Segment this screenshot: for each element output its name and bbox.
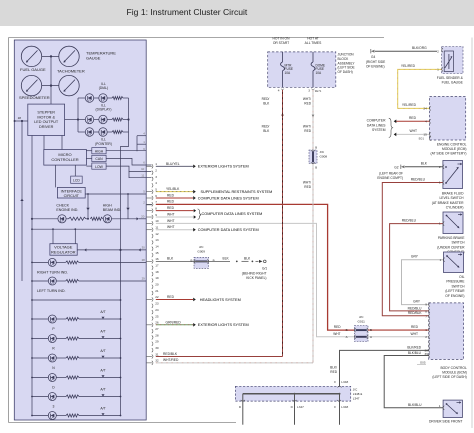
svg-text:B: B bbox=[370, 328, 372, 332]
svg-text:7: 7 bbox=[155, 200, 157, 204]
wire HIGH to pin bbox=[106, 150, 146, 152]
svg-text:RIGHT TURN IND.: RIGHT TURN IND. bbox=[37, 270, 68, 274]
ground G2 bbox=[400, 165, 402, 169]
check engine indicator row bbox=[32, 218, 58, 220]
svg-text:(RIGHT SIDE: (RIGHT SIDE bbox=[366, 60, 385, 64]
svg-text:RED/: RED/ bbox=[262, 125, 270, 129]
svg-text:1: 1 bbox=[425, 328, 427, 332]
bus row bbox=[32, 228, 121, 230]
svg-text:WHT/: WHT/ bbox=[303, 125, 311, 129]
svg-text:(LEFT REAR OF: (LEFT REAR OF bbox=[379, 172, 403, 176]
svg-text:RED: RED bbox=[304, 185, 311, 189]
svg-text:2: 2 bbox=[437, 49, 439, 53]
svg-text:27: 27 bbox=[155, 327, 159, 331]
wire CAN to pin bbox=[106, 158, 151, 165]
wire micro to LOW bbox=[86, 165, 91, 167]
svg-text:23: 23 bbox=[155, 302, 159, 306]
svg-text:GRN/RED: GRN/RED bbox=[166, 320, 182, 324]
wire BLK/RED BCM pin38 to J/C L348 bbox=[340, 350, 429, 386]
svg-text:COMPUTER DATA LINES SYSTEM: COMPUTER DATA LINES SYSTEM bbox=[202, 212, 263, 216]
junction connector J/C G011 bbox=[354, 326, 368, 342]
svg-text:RED: RED bbox=[304, 101, 311, 105]
svg-text:(LEFT SIDE OF DASH): (LEFT SIDE OF DASH) bbox=[432, 375, 466, 379]
svg-text:15: 15 bbox=[423, 133, 427, 137]
pin 11 stub bbox=[146, 229, 152, 231]
svg-text:BLK: BLK bbox=[263, 129, 270, 133]
high beam resistor bbox=[90, 217, 103, 220]
svg-text:RED/BLK: RED/BLK bbox=[163, 352, 178, 356]
svg-text:YEL/BLK: YEL/BLK bbox=[166, 187, 180, 191]
wire micro to LCD bbox=[74, 165, 76, 176]
wire ILL row 2 bbox=[78, 119, 85, 121]
svg-text:L348: L348 bbox=[341, 380, 348, 384]
svg-text:SWITCH: SWITCH bbox=[451, 241, 465, 245]
svg-text:9E71: 9E71 bbox=[315, 89, 322, 93]
svg-text:HEADLIGHTS SYSTEM: HEADLIGHTS SYSTEM bbox=[200, 298, 241, 302]
svg-text:COMPUTER DATA LINES SYSTEM: COMPUTER DATA LINES SYSTEM bbox=[198, 228, 259, 232]
svg-text:L347: L347 bbox=[297, 405, 304, 409]
svg-text:SYSTEM: SYSTEM bbox=[372, 128, 386, 132]
wire ILL row 3 bbox=[78, 131, 85, 133]
svg-text:3: 3 bbox=[308, 89, 310, 93]
svg-text:2: 2 bbox=[439, 165, 441, 169]
svg-text:(POINTER): (POINTER) bbox=[95, 142, 112, 146]
wire GRY oil pressure to BCM pin9 bbox=[402, 260, 444, 305]
speedometer bbox=[21, 75, 41, 95]
svg-text:RED: RED bbox=[167, 206, 175, 210]
wire RED G011 to BCM pin1 bbox=[368, 329, 429, 331]
svg-text:BLK/: BLK/ bbox=[330, 366, 337, 370]
svg-text:STEPPER: STEPPER bbox=[37, 111, 55, 115]
svg-text:B: B bbox=[190, 258, 192, 262]
svg-text:2: 2 bbox=[155, 168, 157, 172]
svg-text:J/C: J/C bbox=[199, 245, 204, 249]
svg-text:10: 10 bbox=[141, 167, 145, 171]
svg-text:1: 1 bbox=[155, 162, 157, 166]
svg-text:CAN: CAN bbox=[95, 157, 103, 161]
svg-text:BLOCK: BLOCK bbox=[338, 57, 350, 61]
wire BLK/BLU BCM pin39 to driver door bbox=[384, 356, 443, 408]
svg-text:(AT BRAKE MASTER: (AT BRAKE MASTER bbox=[432, 201, 464, 205]
svg-text:WHT: WHT bbox=[167, 213, 175, 217]
tachometer bbox=[59, 75, 79, 95]
ground G4 bbox=[370, 49, 372, 53]
svg-text:12: 12 bbox=[155, 232, 159, 236]
right turn indicator LED bbox=[32, 261, 48, 263]
wire pin22 RED headlights bbox=[156, 298, 193, 300]
svg-text:RED: RED bbox=[411, 325, 419, 329]
svg-text:OR START: OR START bbox=[273, 41, 289, 45]
high beam LED bbox=[103, 215, 111, 223]
ILL resistor 2 bbox=[112, 118, 123, 121]
left turn indicator LED bbox=[32, 280, 48, 282]
svg-text:RED/BLU: RED/BLU bbox=[408, 306, 423, 310]
svg-text:LCD: LCD bbox=[73, 178, 80, 182]
wire micro to CAN bbox=[86, 157, 91, 159]
svg-text:6: 6 bbox=[155, 194, 157, 198]
ILL left rail bbox=[77, 98, 79, 132]
svg-text:CIRCUIT: CIRCUIT bbox=[64, 194, 80, 198]
wire L347 tap middle bbox=[294, 394, 296, 425]
svg-text:BODY CONTROL: BODY CONTROL bbox=[440, 366, 466, 370]
wire pin26 GRN/RED bbox=[156, 324, 193, 326]
svg-text:BLK/RED: BLK/RED bbox=[407, 346, 421, 350]
svg-text:RED/BLU: RED/BLU bbox=[402, 218, 417, 222]
svg-text:WHT: WHT bbox=[333, 332, 340, 336]
svg-text:Fig 1: Instrument Cluster Circ: Fig 1: Instrument Cluster Circuit bbox=[127, 7, 248, 17]
svg-text:39: 39 bbox=[425, 352, 429, 356]
svg-text:B: B bbox=[315, 146, 317, 150]
svg-text:L347: L347 bbox=[353, 397, 360, 401]
svg-text:15: 15 bbox=[155, 251, 159, 255]
svg-text:YEL/RED: YEL/RED bbox=[402, 103, 417, 107]
svg-text:LED OUTPUT: LED OUTPUT bbox=[34, 120, 59, 124]
wire pin7 RED long to BCM bbox=[156, 204, 355, 330]
svg-text:RED: RED bbox=[330, 370, 337, 374]
wire pin5 YEL/BLK bbox=[156, 191, 193, 193]
svg-text:ENGINE IND.: ENGINE IND. bbox=[56, 208, 78, 212]
svg-text:BEAM IND.: BEAM IND. bbox=[103, 208, 121, 212]
svg-text:SUPPLEMENTAL RESTRAINTS SYSTEM: SUPPLEMENTAL RESTRAINTS SYSTEM bbox=[201, 190, 273, 194]
svg-text:DRIVER: DRIVER bbox=[39, 125, 54, 129]
svg-text:29: 29 bbox=[155, 340, 159, 344]
svg-text:J/C: J/C bbox=[359, 315, 364, 319]
A/T top bus bbox=[32, 299, 121, 301]
svg-text:A/T: A/T bbox=[100, 368, 105, 372]
wire pin1 BLU/YEL bbox=[156, 165, 193, 167]
svg-text:(DISPLAY): (DISPLAY) bbox=[96, 108, 112, 112]
rail A bbox=[21, 121, 23, 281]
wire drop A bbox=[87, 194, 89, 219]
svg-text:10A: 10A bbox=[285, 71, 292, 75]
ILL LED 1 bbox=[85, 94, 93, 102]
svg-text:8: 8 bbox=[155, 206, 157, 210]
svg-text:KICK PANEL): KICK PANEL) bbox=[246, 276, 266, 280]
svg-text:10: 10 bbox=[155, 219, 159, 223]
BCM box bbox=[429, 303, 464, 360]
frame left edge bbox=[8, 38, 10, 423]
svg-text:7: 7 bbox=[425, 314, 427, 318]
svg-text:COMPUTER: COMPUTER bbox=[367, 119, 386, 123]
svg-text:16: 16 bbox=[155, 257, 159, 261]
svg-text:A/T: A/T bbox=[100, 349, 105, 353]
pin 9 stub bbox=[146, 216, 152, 218]
svg-text:5: 5 bbox=[155, 187, 157, 191]
svg-text:B: B bbox=[346, 328, 348, 332]
rail B bbox=[31, 136, 33, 416]
svg-text:G/1: G/1 bbox=[262, 267, 267, 271]
A/T indicator row 3 bbox=[32, 396, 48, 398]
ILL collector rail bbox=[128, 98, 130, 132]
svg-text:G05: G05 bbox=[420, 360, 426, 364]
wire fuel-temp bbox=[42, 55, 59, 57]
pin 26 stub bbox=[146, 324, 152, 326]
title bar bbox=[0, 0, 474, 26]
voltage regulator box bbox=[50, 244, 77, 256]
svg-text:30: 30 bbox=[142, 245, 146, 249]
svg-text:25: 25 bbox=[155, 314, 159, 318]
svg-text:17: 17 bbox=[155, 264, 159, 268]
frame top edge bbox=[9, 37, 385, 39]
svg-text:J/C: J/C bbox=[320, 150, 325, 154]
pin 6 stub bbox=[146, 197, 152, 199]
wire bus to VR 2 bbox=[74, 229, 76, 244]
svg-text:A/T: A/T bbox=[100, 329, 105, 333]
svg-text:21: 21 bbox=[155, 289, 159, 293]
svg-text:RED: RED bbox=[409, 116, 417, 120]
svg-text:32: 32 bbox=[155, 359, 159, 363]
svg-text:BLK: BLK bbox=[421, 162, 428, 166]
parking brake switch bbox=[443, 212, 463, 234]
svg-text:GRY: GRY bbox=[411, 255, 419, 259]
CAN interface boxes bbox=[92, 148, 106, 154]
junction connector J/C G009 bbox=[194, 257, 209, 268]
svg-text:(BEHIND RIGHT: (BEHIND RIGHT bbox=[242, 272, 267, 276]
svg-text:3: 3 bbox=[155, 175, 157, 179]
junction connector J/C G008 bbox=[309, 150, 317, 164]
svg-text:18: 18 bbox=[155, 270, 159, 274]
svg-text:REGULATOR: REGULATOR bbox=[51, 249, 76, 254]
ILL LED 3 bbox=[85, 115, 93, 123]
svg-text:A/T: A/T bbox=[100, 310, 105, 314]
wire ILL row 1 bbox=[78, 97, 85, 99]
wire BLK brake fluid bbox=[405, 166, 443, 168]
svg-text:COMPUTER DATA LINES SYSTEM: COMPUTER DATA LINES SYSTEM bbox=[198, 196, 259, 200]
right return rail bbox=[120, 229, 122, 415]
pin 16 stub bbox=[146, 260, 152, 262]
svg-text:ASSEMBLY: ASSEMBLY bbox=[338, 61, 356, 65]
svg-text:BRAKE FLUID: BRAKE FLUID bbox=[442, 192, 464, 196]
frame right faint edge bbox=[471, 38, 473, 429]
svg-text:11: 11 bbox=[155, 226, 158, 230]
svg-text:ALL TIMES: ALL TIMES bbox=[305, 41, 322, 45]
svg-text:EXTERIOR LIGHTS SYSTEM: EXTERIOR LIGHTS SYSTEM bbox=[198, 323, 249, 327]
wire bus to VR 1 bbox=[52, 229, 54, 244]
wire stepper to microcontroller bbox=[43, 136, 45, 150]
check engine LED bbox=[58, 215, 66, 223]
svg-text:RED: RED bbox=[334, 325, 341, 329]
svg-text:BLK/BLU: BLK/BLU bbox=[408, 403, 422, 407]
wire pin9 WHT bbox=[156, 216, 194, 218]
svg-text:(AT SIDE OF BATTERY): (AT SIDE OF BATTERY) bbox=[430, 152, 466, 156]
wire CAN stub A bbox=[137, 135, 146, 137]
pin 31 stub bbox=[146, 356, 152, 358]
svg-text:LEVEL SWITCH: LEVEL SWITCH bbox=[439, 196, 464, 200]
check engine resistor bbox=[69, 217, 87, 220]
wire stepper to microcontroller 2 bbox=[61, 136, 63, 150]
svg-text:26: 26 bbox=[155, 321, 159, 325]
svg-text:RED: RED bbox=[167, 295, 175, 299]
instrument cluster panel bbox=[14, 40, 146, 420]
pin 22 stub bbox=[146, 298, 152, 300]
svg-text:RED/: RED/ bbox=[262, 97, 270, 101]
brake fluid level switch bbox=[443, 161, 463, 189]
svg-text:MOTOR &: MOTOR & bbox=[37, 115, 55, 119]
wire BLK to ground G/1 bbox=[209, 260, 231, 262]
driver side front door switch bbox=[443, 400, 462, 417]
svg-text:20: 20 bbox=[141, 214, 145, 218]
svg-text:1: 1 bbox=[439, 404, 441, 408]
svg-text:24: 24 bbox=[155, 308, 159, 312]
wire drop B bbox=[127, 194, 129, 219]
svg-text:30: 30 bbox=[155, 346, 159, 350]
svg-text:G009: G009 bbox=[197, 250, 205, 254]
wire WHT/RED vertical bbox=[312, 90, 314, 363]
wire WHT G011 to BCM pin2 bbox=[368, 336, 429, 338]
fuel gauge bbox=[21, 46, 41, 66]
temperature gauge bbox=[59, 46, 79, 66]
svg-text:FUEL GAUGE: FUEL GAUGE bbox=[442, 81, 464, 85]
A/T indicator row R bbox=[32, 338, 48, 340]
svg-text:BLK/ORG: BLK/ORG bbox=[412, 46, 427, 50]
wire stub pin 2 bbox=[146, 204, 152, 206]
svg-text:CONTROLLER: CONTROLLER bbox=[51, 157, 78, 162]
svg-text:A/T: A/T bbox=[100, 387, 105, 391]
pin 8 stub bbox=[146, 210, 152, 212]
svg-text:29: 29 bbox=[142, 277, 146, 281]
svg-text:L348 &: L348 & bbox=[353, 392, 363, 396]
LCD box bbox=[71, 176, 83, 183]
interface circuit box bbox=[57, 187, 85, 198]
svg-text:RED/BLU: RED/BLU bbox=[411, 177, 426, 181]
wire BLK/ORG bbox=[375, 50, 437, 52]
svg-text:BLK: BLK bbox=[167, 257, 174, 261]
wire pin10 WHT long to BCM bbox=[156, 223, 355, 336]
svg-text:RED: RED bbox=[167, 200, 175, 204]
svg-text:SPEEDOMETER: SPEEDOMETER bbox=[19, 95, 50, 100]
svg-text:LOW: LOW bbox=[95, 165, 104, 169]
svg-text:RED: RED bbox=[304, 129, 311, 133]
svg-text:(LEFT SIDE: (LEFT SIDE bbox=[338, 66, 355, 70]
A/T indicator row 2 bbox=[32, 415, 48, 417]
wire pin32 WHT/RED to DOME fuse bbox=[156, 362, 313, 364]
svg-text:1: 1 bbox=[439, 258, 441, 262]
svg-text:TACHOMETER: TACHOMETER bbox=[57, 69, 85, 74]
svg-text:(LEFT REAR: (LEFT REAR bbox=[445, 289, 465, 293]
wire pin11 WHT bbox=[156, 229, 193, 231]
svg-text:ENGINE CONTROL: ENGINE CONTROL bbox=[437, 142, 467, 146]
ILL LED 5 bbox=[85, 128, 93, 136]
wire stub pin 11 bbox=[129, 171, 151, 177]
svg-text:BLK/BLU: BLK/BLU bbox=[408, 351, 422, 355]
svg-text:13: 13 bbox=[155, 238, 159, 242]
svg-text:PRESSURE: PRESSURE bbox=[446, 280, 465, 284]
rail A direction arrow bbox=[20, 199, 23, 201]
wire RED/BLU brake fluid to BCM pin7 bbox=[382, 183, 443, 316]
svg-text:YEL/RED: YEL/RED bbox=[401, 64, 416, 68]
svg-text:9: 9 bbox=[155, 213, 157, 217]
svg-text:JUNCTION: JUNCTION bbox=[338, 53, 355, 57]
svg-text:G2: G2 bbox=[394, 165, 398, 169]
svg-text:4: 4 bbox=[425, 120, 427, 124]
svg-text:28: 28 bbox=[142, 258, 146, 262]
svg-text:F: F bbox=[334, 380, 336, 384]
svg-text:GAUGE: GAUGE bbox=[86, 55, 101, 60]
junction connector J/C L348 L347 bbox=[235, 386, 350, 401]
svg-text:FUEL GAUGE: FUEL GAUGE bbox=[20, 67, 46, 72]
svg-text:3: 3 bbox=[53, 405, 55, 409]
svg-text:18: 18 bbox=[18, 116, 22, 120]
svg-text:DATA LINES: DATA LINES bbox=[367, 123, 386, 127]
right turn resistor bbox=[66, 261, 79, 264]
svg-text:BLK: BLK bbox=[244, 257, 251, 261]
wire ILL rail down to bus bbox=[121, 132, 129, 229]
wire CAN stub B bbox=[136, 136, 138, 152]
svg-text:WHT/: WHT/ bbox=[303, 97, 311, 101]
svg-text:WHT/RED: WHT/RED bbox=[163, 358, 179, 362]
svg-text:CYLINDER): CYLINDER) bbox=[446, 206, 464, 210]
svg-text:SWITCH: SWITCH bbox=[451, 284, 465, 288]
svg-text:OF DASH): OF DASH) bbox=[338, 70, 353, 74]
svg-text:4: 4 bbox=[155, 181, 157, 185]
svg-text:1: 1 bbox=[439, 181, 441, 185]
svg-text:WHT: WHT bbox=[167, 225, 175, 229]
svg-text:G011: G011 bbox=[358, 320, 366, 324]
wire RED/BLU parking brake to BCM pin8 bbox=[390, 224, 443, 311]
svg-text:WHT: WHT bbox=[167, 219, 175, 223]
svg-text:RED/BLK: RED/BLK bbox=[408, 311, 423, 315]
wire VR to pin 30 bbox=[77, 249, 146, 251]
wire LOW to pin bbox=[106, 166, 151, 171]
svg-text:WHT/: WHT/ bbox=[303, 181, 311, 185]
svg-text:B: B bbox=[315, 165, 317, 169]
svg-text:BLK: BLK bbox=[263, 101, 270, 105]
node rail A junction bbox=[14, 120, 16, 122]
pin 18 input wire bbox=[14, 120, 27, 122]
wire YEL/RED bbox=[398, 69, 442, 108]
svg-text:11: 11 bbox=[141, 174, 144, 178]
ILL resistor 1 bbox=[112, 97, 123, 100]
svg-text:LEFT TURN IND.: LEFT TURN IND. bbox=[37, 289, 66, 293]
svg-text:PARKING BRAKE: PARKING BRAKE bbox=[438, 236, 465, 240]
harness connector pins bbox=[152, 162, 159, 365]
wire micro to HIGH bbox=[86, 150, 91, 152]
wire L348 tap right bbox=[339, 394, 341, 425]
wire WHT to ECM bbox=[396, 133, 430, 135]
svg-text:9: 9 bbox=[425, 303, 427, 307]
svg-text:A: A bbox=[370, 335, 372, 339]
ECM box bbox=[430, 97, 466, 141]
svg-text:BLU/YEL: BLU/YEL bbox=[166, 162, 180, 166]
svg-text:1: 1 bbox=[437, 68, 439, 72]
svg-text:(UNDER CENTER: (UNDER CENTER bbox=[437, 245, 465, 249]
svg-text:22: 22 bbox=[155, 295, 159, 299]
svg-text:MODULE (ECM): MODULE (ECM) bbox=[442, 147, 467, 151]
pin 7 stub bbox=[146, 203, 152, 205]
wire micro to interface bbox=[55, 165, 57, 187]
left turn resistor bbox=[66, 280, 79, 283]
svg-text:BLK: BLK bbox=[223, 257, 230, 261]
ILL resistor 3 bbox=[112, 131, 123, 134]
A/T indicator row D bbox=[32, 377, 48, 379]
stepper motor box bbox=[28, 104, 65, 135]
pin 10 stub bbox=[146, 222, 152, 224]
fuse DOME 10A bbox=[312, 52, 314, 62]
svg-text:G008: G008 bbox=[320, 154, 328, 158]
svg-text:10A: 10A bbox=[316, 71, 323, 75]
svg-text:EXTERIOR LIGHTS SYSTEM: EXTERIOR LIGHTS SYSTEM bbox=[198, 165, 249, 169]
svg-text:(DIAL): (DIAL) bbox=[99, 86, 109, 90]
svg-text:28: 28 bbox=[155, 333, 159, 337]
svg-text:GRY: GRY bbox=[413, 299, 421, 303]
wire RED to ECM bbox=[396, 120, 430, 122]
ILL LED 2 bbox=[99, 94, 107, 102]
svg-text:A/T: A/T bbox=[100, 406, 105, 410]
A/T indicator row N bbox=[32, 357, 48, 359]
svg-text:ENGINE COMPT): ENGINE COMPT) bbox=[377, 176, 403, 180]
svg-text:INTERFACE: INTERFACE bbox=[61, 189, 83, 193]
svg-text:14: 14 bbox=[155, 245, 159, 249]
